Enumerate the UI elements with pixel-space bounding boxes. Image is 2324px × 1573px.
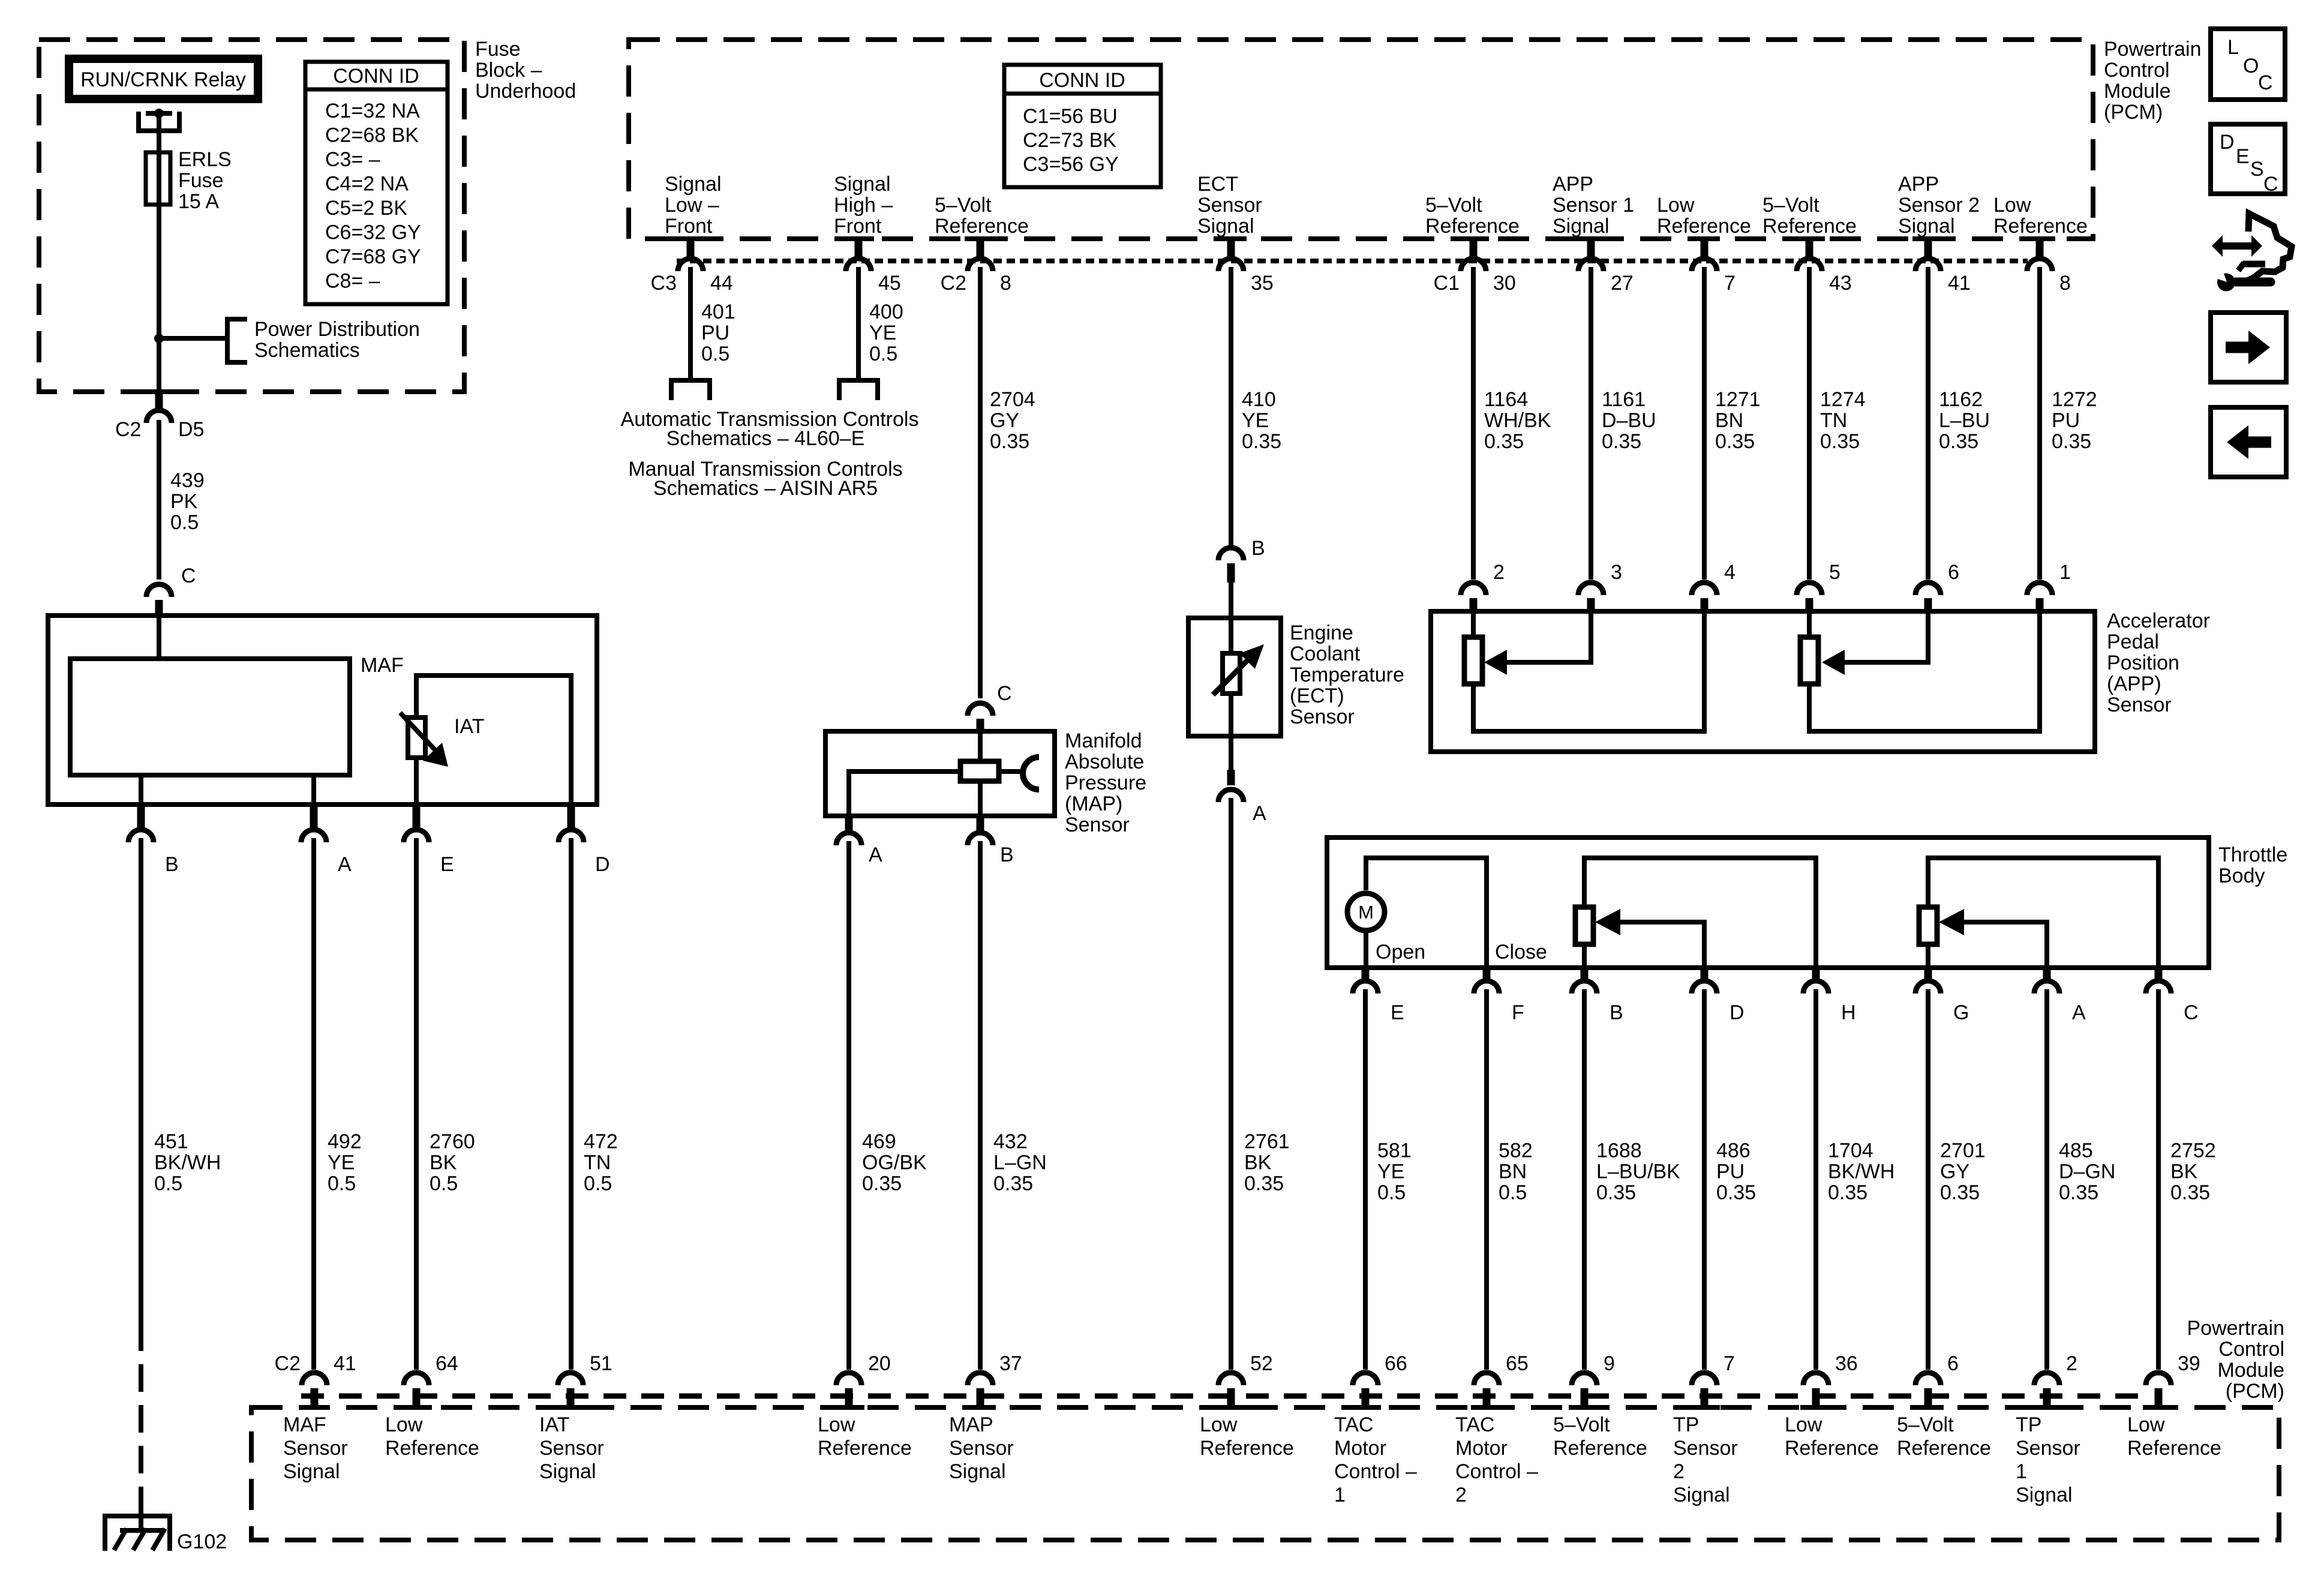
throttle body pin E xyxy=(1362,968,1370,982)
svg-text:BK: BK xyxy=(430,1151,457,1174)
svg-text:High –: High – xyxy=(834,194,893,217)
PCM pin 27 connector xyxy=(1575,236,1607,241)
svg-text:Close: Close xyxy=(1495,941,1547,963)
svg-text:B: B xyxy=(1251,537,1265,560)
svg-text:Control: Control xyxy=(2218,1338,2284,1361)
PCM bottom pin 37 xyxy=(968,1373,993,1385)
APP pot 2 xyxy=(1807,611,1812,637)
svg-text:41: 41 xyxy=(334,1352,356,1375)
APP pot 1 xyxy=(1471,611,1476,637)
svg-text:35: 35 xyxy=(1251,272,1274,295)
svg-text:Sensor: Sensor xyxy=(283,1437,348,1460)
svg-text:GY: GY xyxy=(990,409,1019,432)
svg-text:Sensor: Sensor xyxy=(1197,194,1262,217)
PCM pin 41 connector xyxy=(1912,236,1944,241)
PCM bottom pin 20 xyxy=(836,1373,861,1385)
svg-text:Front: Front xyxy=(665,215,713,238)
svg-text:472: 472 xyxy=(584,1130,618,1153)
svg-text:6: 6 xyxy=(1947,1352,1959,1375)
svg-text:1271: 1271 xyxy=(1715,388,1761,411)
icon DESC xyxy=(2211,124,2285,194)
svg-text:0.35: 0.35 xyxy=(862,1172,902,1195)
PCM bottom pin 9 xyxy=(1572,1373,1597,1385)
wire 2752 BK xyxy=(2156,989,2161,1370)
svg-text:0.35: 0.35 xyxy=(1602,430,1641,453)
svg-text:(PCM): (PCM) xyxy=(2226,1380,2284,1403)
svg-text:BN: BN xyxy=(1499,1160,1527,1183)
svg-text:M: M xyxy=(1358,902,1374,923)
svg-text:41: 41 xyxy=(1948,272,1971,295)
svg-text:Low: Low xyxy=(385,1413,423,1436)
svg-text:451: 451 xyxy=(154,1130,188,1153)
svg-text:Manifold: Manifold xyxy=(1065,730,1142,752)
svg-text:BK/WH: BK/WH xyxy=(1828,1160,1894,1183)
svg-text:Reference: Reference xyxy=(1897,1437,1991,1460)
svg-text:Reference: Reference xyxy=(1785,1437,1879,1460)
svg-text:L: L xyxy=(2227,36,2239,59)
svg-text:582: 582 xyxy=(1499,1139,1533,1162)
svg-text:Underhood: Underhood xyxy=(475,80,576,103)
svg-text:Reference: Reference xyxy=(2127,1437,2221,1460)
svg-text:D–GN: D–GN xyxy=(2059,1160,2115,1183)
svg-text:Sensor: Sensor xyxy=(2016,1437,2080,1460)
IAT thermistor xyxy=(408,718,425,758)
svg-text:0.35: 0.35 xyxy=(993,1172,1033,1195)
svg-text:C3: C3 xyxy=(651,272,677,295)
svg-text:5: 5 xyxy=(1829,561,1840,584)
svg-text:0.5: 0.5 xyxy=(869,343,897,365)
MAF IAT sensor outer box xyxy=(48,616,597,804)
svg-text:Motor: Motor xyxy=(1334,1437,1386,1460)
svg-text:G102: G102 xyxy=(177,1530,227,1553)
wire 401 PU xyxy=(688,267,693,378)
wire 1161 D&#8211;BU xyxy=(1589,267,1593,580)
svg-text:O: O xyxy=(2243,55,2259,77)
svg-text:43: 43 xyxy=(1829,272,1852,295)
svg-text:C2: C2 xyxy=(275,1352,301,1375)
svg-text:0.5: 0.5 xyxy=(1499,1181,1527,1204)
svg-text:27: 27 xyxy=(1611,272,1634,295)
svg-text:Signal: Signal xyxy=(1898,215,1955,238)
svg-text:Reference: Reference xyxy=(1553,1437,1647,1460)
svg-text:BN: BN xyxy=(1715,409,1743,432)
svg-text:TAC: TAC xyxy=(1455,1413,1494,1436)
PCM pin 43 connector xyxy=(1794,236,1825,241)
svg-text:C7=68 GY: C7=68 GY xyxy=(325,245,421,268)
PCM bottom pin 66 xyxy=(1353,1373,1378,1385)
svg-text:F: F xyxy=(1512,1001,1524,1024)
svg-text:TN: TN xyxy=(584,1151,611,1174)
svg-text:E: E xyxy=(1391,1001,1404,1024)
svg-text:B: B xyxy=(1610,1001,1623,1024)
svg-text:1688: 1688 xyxy=(1596,1139,1642,1162)
TP sensor 1 pot xyxy=(1928,858,2158,968)
PCM bottom pin 2 xyxy=(2034,1373,2059,1385)
svg-text:6: 6 xyxy=(1948,561,1959,584)
svg-text:Block –: Block – xyxy=(475,59,542,82)
svg-text:B: B xyxy=(165,853,179,876)
svg-text:2701: 2701 xyxy=(1940,1139,1986,1162)
wire 1271 BN xyxy=(1702,267,1707,580)
CONN ID table (fuse block) xyxy=(305,62,448,304)
MAF pin E xyxy=(413,804,421,831)
svg-text:Schematics – AISIN AR5: Schematics – AISIN AR5 xyxy=(653,477,878,500)
svg-text:Schematics – 4L60–E: Schematics – 4L60–E xyxy=(666,427,865,450)
terminal to transmission controls (45) xyxy=(839,380,878,400)
svg-text:C3= –: C3= – xyxy=(325,148,380,171)
svg-text:Control: Control xyxy=(2104,59,2170,82)
svg-text:G: G xyxy=(1953,1001,1969,1024)
svg-text:492: 492 xyxy=(328,1130,362,1153)
svg-text:9: 9 xyxy=(1604,1352,1615,1375)
svg-text:YE: YE xyxy=(1377,1160,1404,1183)
svg-text:Body: Body xyxy=(2218,864,2265,887)
svg-text:C1: C1 xyxy=(1434,272,1460,295)
svg-text:52: 52 xyxy=(1250,1352,1273,1375)
svg-text:A: A xyxy=(338,853,352,876)
svg-text:0.35: 0.35 xyxy=(1828,1181,1867,1204)
ECT thermistor xyxy=(1229,618,1233,653)
wire 1164 WH/BK xyxy=(1471,267,1476,580)
svg-text:C: C xyxy=(2263,173,2278,196)
svg-text:C4=2 NA: C4=2 NA xyxy=(325,173,409,196)
svg-text:Reference: Reference xyxy=(1657,215,1751,238)
svg-text:0.5: 0.5 xyxy=(170,511,199,534)
svg-text:MAF: MAF xyxy=(283,1413,326,1436)
branch wire to power distribution xyxy=(159,336,227,341)
svg-text:Sensor: Sensor xyxy=(2107,694,2172,716)
PCM pin 8 connector xyxy=(2024,236,2055,241)
PCM bottom connector dotted line xyxy=(301,1394,2146,1399)
wire 1704 BK/WH xyxy=(1813,989,1818,1370)
svg-text:1161: 1161 xyxy=(1602,388,1646,411)
svg-text:E: E xyxy=(440,853,454,876)
PCM pin 8 connector xyxy=(965,236,996,241)
svg-text:Open: Open xyxy=(1376,941,1425,963)
svg-text:4: 4 xyxy=(1724,561,1736,584)
wire 2704 GY 5-volt ref to MAP xyxy=(978,267,983,698)
wire 451 BK/WH dashed part to ground xyxy=(139,1323,143,1515)
svg-text:0.35: 0.35 xyxy=(1596,1181,1636,1204)
throttle body box xyxy=(1327,837,2209,968)
icon arrow left xyxy=(2211,407,2286,477)
svg-text:Module: Module xyxy=(2217,1359,2284,1382)
svg-text:Module: Module xyxy=(2104,80,2171,103)
icon vehicle service xyxy=(2221,242,2253,250)
wire 439 PK 0.5 xyxy=(157,420,161,580)
svg-text:Low: Low xyxy=(1657,194,1695,217)
svg-text:36: 36 xyxy=(1835,1352,1858,1375)
svg-text:Reference: Reference xyxy=(1762,215,1857,238)
svg-text:C2: C2 xyxy=(115,418,141,441)
svg-text:1274: 1274 xyxy=(1820,388,1866,411)
svg-text:Signal: Signal xyxy=(834,173,891,196)
svg-text:PK: PK xyxy=(170,490,198,513)
svg-text:39: 39 xyxy=(2178,1352,2200,1375)
svg-text:Signal: Signal xyxy=(1673,1484,1730,1506)
power distribution bracket symbol xyxy=(227,319,247,362)
svg-text:Fuse: Fuse xyxy=(178,169,224,192)
TP sensor 2 pot xyxy=(1584,858,1816,968)
svg-text:BK: BK xyxy=(2170,1160,2198,1183)
svg-text:Control –: Control – xyxy=(1334,1460,1417,1483)
PCM pin 44 connector xyxy=(675,236,706,241)
svg-text:C1=56 BU: C1=56 BU xyxy=(1023,105,1118,128)
svg-text:C6=32 GY: C6=32 GY xyxy=(325,221,421,244)
svg-text:432: 432 xyxy=(993,1130,1028,1153)
svg-text:Signal: Signal xyxy=(1197,215,1254,238)
svg-text:Absolute: Absolute xyxy=(1065,751,1144,773)
icon arrow right xyxy=(2211,313,2286,382)
svg-text:(PCM): (PCM) xyxy=(2104,101,2163,124)
svg-text:A: A xyxy=(1253,802,1266,825)
svg-text:C8= –: C8= – xyxy=(325,270,380,293)
MAP port arc xyxy=(1023,757,1039,789)
TP sensor 1 wiper arrow from pin A xyxy=(1962,922,2047,968)
svg-text:8: 8 xyxy=(1000,272,1011,295)
svg-text:3: 3 xyxy=(1611,561,1622,584)
svg-text:C: C xyxy=(181,565,196,587)
svg-text:A: A xyxy=(869,843,882,866)
svg-text:Low: Low xyxy=(1785,1413,1822,1436)
wire 410 YE ECT signal xyxy=(1229,267,1233,547)
svg-text:0.35: 0.35 xyxy=(1939,430,1978,453)
MAP internal wires xyxy=(978,731,983,761)
throttle body pin B xyxy=(1581,968,1589,982)
svg-text:BK/WH: BK/WH xyxy=(154,1151,221,1174)
PCM bottom pin 6 xyxy=(1915,1373,1941,1385)
svg-text:WH/BK: WH/BK xyxy=(1484,409,1551,432)
svg-text:0.35: 0.35 xyxy=(990,430,1029,453)
PCM bottom pin 39 xyxy=(2146,1373,2171,1385)
TAC motor loop xyxy=(1366,858,1487,968)
svg-text:1: 1 xyxy=(1334,1484,1346,1506)
svg-text:20: 20 xyxy=(868,1352,891,1375)
icon LOC xyxy=(2211,29,2285,100)
TAC motor M xyxy=(1347,893,1385,930)
svg-text:(MAP): (MAP) xyxy=(1065,792,1122,815)
PCM pin 7 connector xyxy=(1689,236,1720,241)
terminal to transmission controls (44) xyxy=(671,380,710,400)
svg-text:Reference: Reference xyxy=(1425,215,1520,238)
PCM bottom pin 65 xyxy=(1474,1373,1499,1385)
svg-text:Sensor: Sensor xyxy=(1065,813,1130,836)
wire 492 YE xyxy=(311,838,316,1370)
svg-text:BK: BK xyxy=(1244,1151,1272,1174)
wire 472 TN xyxy=(569,838,574,1370)
IAT thermistor arrow xyxy=(400,713,436,751)
svg-text:Throttle: Throttle xyxy=(2218,843,2287,866)
svg-text:Reference: Reference xyxy=(1993,215,2088,238)
svg-text:TP: TP xyxy=(2016,1413,2041,1436)
svg-text:5–Volt: 5–Volt xyxy=(935,194,992,217)
svg-text:1704: 1704 xyxy=(1828,1139,1873,1162)
svg-text:Low: Low xyxy=(1200,1413,1238,1436)
wire 451 BK/WH solid part xyxy=(139,838,143,1323)
svg-text:401: 401 xyxy=(701,301,735,323)
svg-text:410: 410 xyxy=(1242,388,1276,411)
PCM pin 30 connector xyxy=(1458,236,1489,241)
svg-text:A: A xyxy=(2072,1001,2086,1024)
svg-text:0.35: 0.35 xyxy=(2059,1181,2098,1204)
svg-text:Low: Low xyxy=(2127,1413,2165,1436)
svg-text:TP: TP xyxy=(1673,1413,1699,1436)
svg-text:YE: YE xyxy=(869,322,896,344)
wire 432 L-GN xyxy=(978,841,983,1370)
ground G102 xyxy=(105,1516,170,1551)
throttle body pin C xyxy=(2155,968,2163,982)
PCM top dashed box xyxy=(629,40,2093,239)
svg-text:1: 1 xyxy=(2059,561,2071,584)
svg-text:0.35: 0.35 xyxy=(1484,430,1524,453)
svg-text:Motor: Motor xyxy=(1455,1437,1508,1460)
TP sensor 2 wiper arrow from pin D xyxy=(1618,922,1704,968)
wire 581 YE xyxy=(1363,989,1368,1370)
svg-text:Reference: Reference xyxy=(818,1437,912,1460)
svg-text:C1=32 NA: C1=32 NA xyxy=(325,100,420,122)
svg-text:Sensor: Sensor xyxy=(1290,706,1355,728)
APP pot 2 wiper arrow from pin 6 xyxy=(1845,611,1928,662)
svg-text:Control –: Control – xyxy=(1455,1460,1538,1483)
MAF pin B xyxy=(137,804,145,831)
svg-text:0.35: 0.35 xyxy=(1715,430,1755,453)
relay RUN/CRNK Relay xyxy=(69,59,258,99)
svg-text:Position: Position xyxy=(2107,652,2179,674)
svg-text:C3=56 GY: C3=56 GY xyxy=(1023,153,1119,176)
svg-text:H: H xyxy=(1841,1001,1856,1024)
svg-text:Fuse: Fuse xyxy=(475,38,521,61)
svg-text:Low –: Low – xyxy=(665,194,719,217)
svg-text:Schematics: Schematics xyxy=(254,339,360,362)
throttle body pin H xyxy=(1812,968,1820,982)
svg-text:Coolant: Coolant xyxy=(1290,643,1361,665)
svg-text:Accelerator: Accelerator xyxy=(2107,610,2210,632)
svg-text:0.35: 0.35 xyxy=(1242,430,1281,453)
svg-text:PU: PU xyxy=(2052,409,2080,432)
svg-text:0.5: 0.5 xyxy=(430,1172,458,1195)
svg-text:Signal: Signal xyxy=(2016,1484,2073,1506)
svg-text:Sensor 2: Sensor 2 xyxy=(1898,194,1980,217)
svg-text:Reference: Reference xyxy=(385,1437,479,1460)
svg-text:C: C xyxy=(997,682,1012,705)
throttle body pin G xyxy=(1924,968,1932,982)
CONN ID table (PCM) xyxy=(1004,65,1161,187)
wire 2761 BK xyxy=(1229,798,1233,1370)
svg-text:51: 51 xyxy=(590,1352,612,1375)
svg-text:2: 2 xyxy=(1673,1460,1685,1483)
svg-text:Sensor 1: Sensor 1 xyxy=(1553,194,1634,217)
connector C2 D5 at fuse block exit xyxy=(143,389,175,394)
wire 1272 PU xyxy=(2037,267,2042,580)
svg-text:66: 66 xyxy=(1385,1352,1407,1375)
svg-text:B: B xyxy=(1000,843,1014,866)
svg-text:C: C xyxy=(2258,71,2273,94)
svg-text:IAT: IAT xyxy=(454,715,484,738)
svg-text:0.35: 0.35 xyxy=(1820,430,1860,453)
svg-text:1272: 1272 xyxy=(2052,388,2097,411)
svg-text:Sensor: Sensor xyxy=(539,1437,604,1460)
svg-text:GY: GY xyxy=(1940,1160,1969,1183)
MAF internal wires to pins B and A xyxy=(139,775,143,804)
svg-text:7: 7 xyxy=(1724,272,1736,295)
svg-text:L–BU/BK: L–BU/BK xyxy=(1596,1160,1680,1183)
fuse ERLS 15A xyxy=(146,152,170,205)
svg-text:2752: 2752 xyxy=(2170,1139,2216,1162)
PCM bottom dashed box xyxy=(251,1407,2279,1540)
svg-text:0.5: 0.5 xyxy=(1377,1181,1406,1204)
svg-text:2704: 2704 xyxy=(990,388,1035,411)
svg-text:C2: C2 xyxy=(941,272,966,295)
PCM bottom pin 51 xyxy=(558,1373,583,1385)
IAT circuit top and right xyxy=(416,676,571,804)
ECT thermistor arrow xyxy=(1213,656,1251,695)
svg-text:Sensor: Sensor xyxy=(1673,1437,1738,1460)
throttle body pin F xyxy=(1483,968,1491,982)
APP pot 1 wiper arrow from pin 3 xyxy=(1507,611,1591,662)
svg-text:Powertrain: Powertrain xyxy=(2187,1317,2284,1340)
svg-text:PU: PU xyxy=(701,322,729,344)
svg-text:CONN ID: CONN ID xyxy=(333,65,419,88)
svg-text:PU: PU xyxy=(1716,1160,1744,1183)
svg-text:D: D xyxy=(2220,131,2235,154)
wire 1162 L&#8211;BU xyxy=(1926,267,1930,580)
svg-text:0.5: 0.5 xyxy=(584,1172,612,1195)
ECT sensor box xyxy=(1188,618,1281,736)
svg-text:2: 2 xyxy=(2066,1352,2077,1375)
wire 1274 TN xyxy=(1807,267,1812,580)
svg-text:(ECT): (ECT) xyxy=(1290,685,1344,707)
svg-text:44: 44 xyxy=(710,272,733,295)
wire 400 YE xyxy=(856,267,861,378)
svg-text:Signal: Signal xyxy=(1553,215,1610,238)
wire 486 PU xyxy=(1702,989,1707,1370)
MAP pin A xyxy=(845,816,853,834)
svg-text:C2=73 BK: C2=73 BK xyxy=(1023,129,1116,152)
svg-text:439: 439 xyxy=(170,469,205,492)
svg-text:Temperature: Temperature xyxy=(1290,664,1404,686)
svg-text:Engine: Engine xyxy=(1290,622,1353,644)
PCM top connector dotted line xyxy=(677,259,2028,263)
svg-text:MAF: MAF xyxy=(361,654,404,677)
svg-text:64: 64 xyxy=(436,1352,458,1375)
svg-text:5–Volt: 5–Volt xyxy=(1425,194,1482,217)
svg-text:0.35: 0.35 xyxy=(1244,1172,1284,1195)
wire 485 D&#8211;GN xyxy=(2044,989,2049,1370)
svg-text:YE: YE xyxy=(328,1151,355,1174)
svg-text:0.35: 0.35 xyxy=(1940,1181,1980,1204)
PCM bottom pin 7 xyxy=(1692,1373,1717,1385)
junction node on relay wire xyxy=(154,334,164,343)
svg-text:Signal: Signal xyxy=(283,1460,340,1483)
MAP pin B xyxy=(977,816,984,834)
MAF pin D xyxy=(568,804,575,831)
svg-text:2761: 2761 xyxy=(1244,1130,1290,1153)
svg-text:Reference: Reference xyxy=(935,215,1029,238)
MAP sensor box xyxy=(825,731,1055,816)
svg-text:0.5: 0.5 xyxy=(701,343,729,365)
throttle body pin A xyxy=(2043,968,2051,982)
svg-text:C2=68 BK: C2=68 BK xyxy=(325,124,419,147)
svg-text:Signal: Signal xyxy=(539,1460,596,1483)
svg-text:30: 30 xyxy=(1493,272,1516,295)
svg-text:APP: APP xyxy=(1553,173,1593,196)
PCM bottom pin 52 xyxy=(1218,1373,1244,1385)
PCM bottom pin 41 xyxy=(302,1373,327,1385)
svg-text:E: E xyxy=(2236,145,2250,168)
svg-text:Front: Front xyxy=(834,215,882,238)
svg-text:486: 486 xyxy=(1716,1139,1750,1162)
PCM pin 35 connector xyxy=(1215,236,1247,241)
